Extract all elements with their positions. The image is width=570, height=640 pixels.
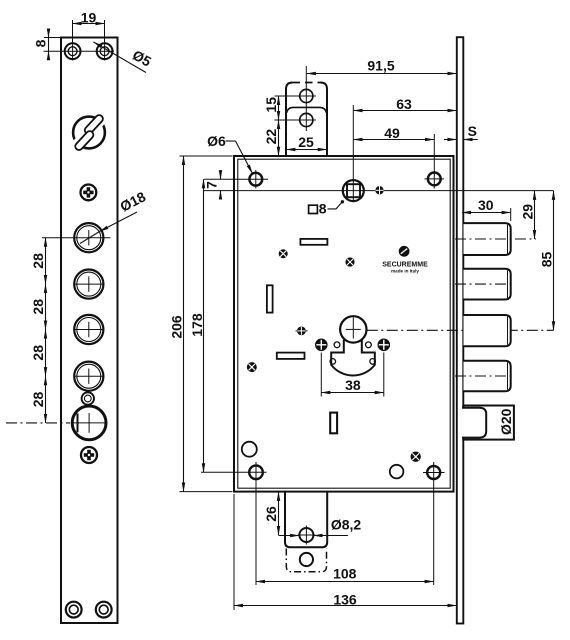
cylinder axis dash-dot	[367, 329, 554, 331]
cylinder hole (faceplate, bold)	[72, 406, 107, 440]
svg-text:29: 29	[519, 204, 535, 220]
svg-text:15: 15	[263, 97, 279, 113]
cylinder hole circle	[340, 316, 366, 342]
small hole pair lower	[330, 359, 375, 365]
dimension 108	[256, 565, 434, 581]
latch bolt housing	[463, 406, 514, 440]
svg-text:28: 28	[30, 392, 46, 408]
deadbolt 3	[464, 315, 511, 346]
case screw top-left	[249, 170, 262, 189]
svg-text:26: 26	[263, 506, 279, 522]
dimension 25	[286, 134, 327, 150]
rivet C	[247, 362, 257, 372]
tab hole lower open	[300, 553, 313, 566]
svg-text:178: 178	[189, 313, 205, 337]
svg-text:63: 63	[396, 96, 412, 112]
small hole pair upper	[334, 342, 371, 348]
hole bottom-right open	[390, 465, 404, 479]
dimension 63	[354, 96, 457, 112]
svg-text:136: 136	[333, 591, 357, 607]
dimension 7	[203, 171, 220, 200]
dimension 49	[354, 125, 434, 141]
screw hole top-left (faceplate)	[65, 42, 81, 61]
dimension 19	[73, 9, 105, 44]
dimension 38	[321, 353, 384, 397]
tab vertical centerline	[305, 66, 307, 131]
case screw top-right	[425, 134, 445, 189]
small ring between hole4 and cylinder	[82, 392, 94, 404]
rivet A	[279, 249, 288, 258]
svg-text:30: 30	[478, 197, 494, 213]
svg-text:91,5: 91,5	[367, 57, 394, 73]
lock case outer rectangle	[234, 156, 454, 492]
dimension 29	[519, 191, 535, 239]
phillips screw lower (faceplate)	[81, 447, 97, 463]
svg-text:8: 8	[32, 39, 48, 47]
slot upper horizontal	[300, 239, 327, 245]
cylinder fixing screw right	[378, 339, 391, 352]
dimension 206	[168, 156, 232, 492]
top tab second step	[287, 107, 327, 113]
screw hole bottom-right (faceplate)	[96, 602, 112, 618]
bottom tab extension dash-dot	[286, 549, 326, 572]
cylinder fixing screw left	[315, 339, 328, 352]
dimension 178	[189, 179, 205, 472]
rivet D	[411, 452, 421, 462]
handle spindle axis line	[204, 190, 554, 192]
deadbolt 2	[455, 269, 513, 300]
pin hole right of spindle	[375, 186, 383, 194]
svg-text:7: 7	[203, 181, 219, 189]
hole Ø18 #1	[74, 223, 111, 252]
dimension 15	[263, 96, 301, 120]
chain dimension 28 x4	[30, 238, 74, 423]
screw hole top-right (faceplate)	[97, 42, 113, 61]
label Ø6 leader	[207, 133, 252, 174]
tab hole lower	[297, 113, 317, 126]
deadbolt 1	[455, 223, 536, 255]
svg-text:SECUREMME: SECUREMME	[382, 262, 428, 269]
svg-text:8: 8	[319, 200, 327, 216]
slot left vertical	[267, 285, 273, 312]
phillips screw upper (faceplate)	[81, 185, 97, 201]
dimension 85	[538, 191, 554, 330]
svg-text:Ø6: Ø6	[207, 133, 226, 149]
dimension 91,5	[307, 57, 457, 73]
svg-text:S: S	[468, 123, 477, 139]
latch bolt head	[462, 408, 486, 438]
slot mid horizontal	[277, 353, 305, 359]
faceplate front view outline	[61, 38, 118, 624]
svg-text:38: 38	[345, 377, 361, 393]
svg-text:Ø20: Ø20	[498, 408, 514, 435]
bottom fixing tab	[285, 492, 327, 548]
hole bottom-left open	[242, 442, 257, 457]
svg-text:49: 49	[384, 125, 400, 141]
lock case inner rectangle	[238, 159, 450, 488]
dimension 22	[263, 120, 279, 156]
label Ø5 leader	[94, 42, 155, 73]
securemme logo on faceplate	[70, 113, 108, 152]
svg-text:108: 108	[333, 565, 357, 581]
hole Ø18 #4	[74, 362, 104, 391]
handle spindle hole (square 8)	[343, 180, 364, 201]
case screw bottom-right	[423, 462, 445, 585]
dimension Ø8,2 arrows	[279, 516, 362, 535]
svg-text:85: 85	[538, 252, 554, 268]
svg-text:made in Italy: made in Italy	[391, 269, 419, 274]
dimension S (plate thickness)	[444, 123, 478, 140]
extension line screw axis	[204, 178, 268, 180]
rivet B	[345, 257, 354, 266]
svg-text:Ø8,2: Ø8,2	[331, 516, 362, 532]
dimension 8	[32, 30, 62, 60]
dimension 26	[263, 492, 279, 535]
dimension 136	[234, 494, 456, 610]
faceplate side view (edge bar)	[457, 37, 464, 623]
svg-text:19: 19	[81, 9, 97, 25]
hole Ø18 #2	[74, 270, 104, 299]
pin hole left of cylinder	[296, 327, 308, 336]
slot lower vertical	[330, 413, 337, 434]
svg-text:28: 28	[30, 345, 46, 361]
label Ø18 leader	[80, 188, 148, 243]
euro cylinder profile	[331, 340, 375, 376]
centerline through top holes	[44, 50, 115, 52]
label square-8	[309, 200, 344, 216]
top fixing tab	[286, 83, 327, 157]
dimension 30	[462, 197, 511, 221]
tab hole Ø8,2	[298, 526, 316, 545]
spindle vertical centerline	[352, 105, 354, 202]
screw hole bottom-left (faceplate)	[66, 602, 82, 618]
deadbolt 4	[455, 361, 513, 392]
svg-text:28: 28	[30, 253, 46, 269]
svg-text:28: 28	[30, 299, 46, 315]
case screw bottom-left	[201, 462, 267, 585]
tab hole upper	[297, 89, 317, 102]
svg-text:25: 25	[298, 134, 314, 150]
hole Ø18 #3	[74, 315, 104, 344]
centerline dash-dot at cylinder	[6, 422, 70, 424]
svg-text:206: 206	[168, 315, 184, 339]
svg-text:22: 22	[263, 129, 279, 145]
securemme logo stamp	[382, 246, 428, 274]
